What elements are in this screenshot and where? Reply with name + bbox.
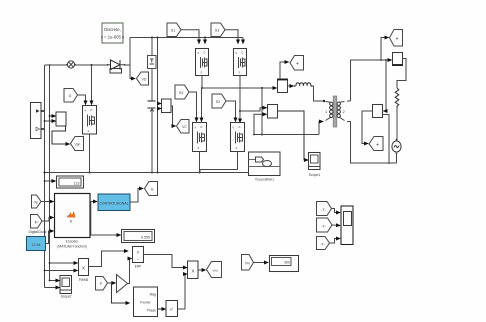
svg-text:X: X: [191, 269, 194, 274]
wire top DC bus: [130, 37, 243, 39]
wire VMC out to goto VC: [171, 106, 176, 126]
node A: [201, 87, 203, 89]
svg-text:Scope2: Scope2: [61, 295, 72, 299]
from tag Ip: [31, 215, 43, 229]
goto tag result: [207, 262, 222, 278]
wire bus to RC branch: [151, 38, 153, 56]
voltage measurement VM1: [44, 112, 66, 126]
wire CM2 out to inductor: [288, 85, 294, 87]
svg-text:D: D: [91, 108, 93, 112]
DC source subsystem block: [31, 103, 42, 139]
mosfet Mleft chopper: [83, 106, 97, 135]
wire busB to X1 in1: [50, 262, 78, 264]
svg-text:fx: fx: [70, 220, 73, 224]
wire fcn out junction: [89, 214, 92, 216]
transformer T1: [325, 96, 346, 127]
wire cap to bus: [151, 108, 153, 173]
node cap branch 2: [157, 37, 159, 39]
node display tap: [44, 180, 46, 182]
display Display2: [122, 230, 155, 243]
svg-text:Vp: Vp: [34, 201, 38, 205]
svg-text:S: S: [201, 71, 203, 75]
display Display1: [57, 176, 84, 188]
svg-text:X: X: [137, 250, 140, 255]
mosfet M4: [231, 123, 245, 152]
svg-text:G: G: [69, 94, 72, 98]
divide block ERP: [133, 247, 144, 269]
wire AC source to bottom: [396, 154, 398, 164]
svg-text:CONTROLSIGNAL: CONTROLSIGNAL: [99, 202, 128, 206]
node bus2 stub: [253, 134, 255, 136]
wire VM4 to goto V2: [362, 111, 373, 144]
product X1: [79, 259, 89, 283]
svg-text:0.595: 0.595: [141, 236, 150, 240]
wire VM4 to bottom: [383, 115, 390, 164]
wire bottom link dashed: [254, 134, 319, 136]
node drain Mleft: [91, 64, 93, 66]
goto tag VD: [137, 72, 149, 85]
svg-text:300: 300: [284, 261, 290, 265]
wire M2 source to M4 drain: [239, 76, 241, 123]
svg-text:Encoder: Encoder: [66, 240, 79, 244]
svg-text:123: 123: [74, 182, 80, 186]
svg-text:+: +: [376, 143, 379, 149]
powergui block: [101, 23, 124, 43]
wire CM2 signal to goto: [280, 62, 289, 79]
node A tap: [261, 87, 263, 89]
from tag T1m: [317, 202, 332, 216]
wire DC top feed: [45, 64, 68, 66]
wire node down to Goto VD: [130, 65, 135, 79]
subsystem Vca positive: [249, 152, 281, 182]
svg-text:S1: S1: [171, 29, 175, 33]
from tag S2: [212, 94, 226, 108]
wire busA to Scope2 in2: [45, 287, 60, 289]
wire M1 source to node A: [201, 76, 203, 89]
wire S1 to M1 gate: [181, 30, 199, 44]
ac source Vgrid: [392, 139, 401, 155]
wire T1m to scope3: [332, 209, 341, 213]
scope Scope1: [309, 153, 321, 178]
svg-text:VD: VD: [142, 78, 147, 82]
wire top feed to Mleft drain: [91, 65, 93, 105]
wire FN to Display3: [254, 262, 269, 264]
node B: [239, 110, 241, 112]
wire diode out node: [125, 64, 130, 66]
goto tag Vs: [390, 30, 403, 47]
from tag Vp: [32, 195, 42, 208]
wire M1 drain drop: [204, 38, 206, 44]
wire 1/u to X2 in2: [178, 274, 188, 309]
svg-text:VC: VC: [182, 125, 187, 129]
wire CONTROLSIGNAL to goto G: [130, 189, 143, 203]
scope Scope2: [60, 276, 72, 299]
svg-text:S2: S2: [216, 100, 220, 104]
svg-text:S: S: [198, 146, 200, 150]
wire vertical bus B: [49, 65, 51, 281]
resistor Rload: [395, 88, 399, 108]
svg-text:DigitalClock: DigitalClock: [29, 230, 47, 234]
wire primary bottom: [319, 122, 323, 135]
node A tap bottom: [261, 134, 263, 136]
wire G to Mleft gate: [78, 95, 86, 105]
goto tag Vpn: [71, 137, 84, 151]
wire bus2 to VM2 minus: [254, 114, 267, 134]
product X2: [188, 261, 199, 279]
svg-text:S: S: [88, 129, 90, 133]
from tag T3m: [317, 237, 330, 250]
goto tag Iinv: [290, 56, 304, 71]
from tag FN: [242, 255, 254, 271]
from tag P: [96, 277, 108, 291]
wire T3m to scope3: [330, 239, 341, 244]
node cap bus: [151, 172, 153, 174]
svg-text:Vca positive1: Vca positive1: [255, 178, 274, 182]
voltage measurement VM4: [373, 105, 383, 118]
wire X2 out to goto: [198, 269, 206, 271]
goto tag VC: [177, 120, 190, 134]
svg-text:X: X: [82, 266, 85, 271]
svg-text:(MATLAB Function): (MATLAB Function): [57, 245, 87, 249]
node bus left: [44, 172, 46, 174]
goto tag V2: [369, 137, 383, 151]
wire M3 source to bus: [199, 152, 201, 173]
wire vertical bus A: [44, 65, 46, 288]
wire secondary bottom loop: [347, 122, 397, 164]
svg-text:S3: S3: [215, 29, 219, 33]
wire Vp to fcn in1: [41, 201, 54, 203]
svg-text:S: S: [236, 146, 238, 150]
svg-text:+: +: [396, 37, 399, 43]
wire Ip to fcn in2: [42, 218, 54, 222]
wire B node to VM2 plus: [240, 108, 267, 111]
wire A tap down: [261, 88, 263, 135]
wire P to Fourier: [112, 283, 130, 303]
svg-text:Vhd: Vhd: [212, 269, 218, 273]
wire divide out to X2 in1: [144, 255, 188, 268]
from tag S4: [175, 85, 189, 99]
svg-text:Phase: Phase: [147, 309, 157, 313]
diode D1: [107, 60, 126, 73]
from tag T2m: [317, 218, 333, 232]
wire M4 source to bus: [200, 152, 238, 173]
wire M3 drain drop: [201, 88, 203, 122]
wire secondary top loop: [347, 60, 392, 101]
mosfet M2: [234, 49, 247, 76]
node M3 bus: [199, 172, 201, 174]
digital clock block: [27, 237, 46, 251]
display Display3: [270, 256, 299, 272]
wire tap down to VM4: [384, 60, 387, 111]
wire busB to Scope2 in1: [50, 280, 60, 282]
wire busA to Display1: [45, 180, 56, 182]
svg-text:Mag: Mag: [150, 293, 157, 297]
svg-text:+: +: [296, 62, 299, 68]
svg-text:D: D: [201, 125, 203, 129]
wire inductor to transformer primary top: [311, 86, 323, 101]
svg-text:-T-: -T-: [321, 208, 326, 212]
from tag S3: [211, 23, 225, 37]
node VM4 tap: [385, 59, 387, 61]
inductor L1: [294, 83, 312, 87]
current measurement CM2: [278, 79, 288, 93]
current measurement CM3: [393, 53, 403, 66]
block 1/u: [166, 301, 178, 317]
svg-text:FN: FN: [245, 262, 250, 266]
svg-text:s = 1e-005 s: s = 1e-005 s: [101, 35, 124, 40]
svg-text:-T-: -T-: [321, 225, 326, 229]
wire RC branch to cap: [151, 69, 153, 101]
scope Scope3: [341, 206, 353, 245]
svg-text:Fourier: Fourier: [140, 301, 151, 305]
svg-text:Ip: Ip: [35, 220, 38, 224]
wire resistor to AC source: [396, 108, 398, 141]
wire node up to top bus: [129, 38, 131, 66]
svg-text:PWM5: PWM5: [79, 278, 89, 282]
wire fourier phase to ub: [158, 308, 166, 310]
wire negative bus: [45, 172, 250, 174]
wire S3 to M2 gate: [225, 30, 238, 44]
wire CM3 out to resistor: [397, 59, 406, 89]
wire fcn out2 to Display2: [91, 215, 121, 235]
wire DC+ stub: [41, 110, 45, 112]
svg-text:Discrete,: Discrete,: [104, 27, 121, 32]
wire X1 out to divide: [89, 251, 129, 267]
node M1 drain: [204, 37, 206, 39]
node bottom junction: [388, 162, 390, 164]
MATLAB function block Encoder: [55, 194, 91, 249]
wire to CONTROLSIGNAL: [91, 202, 97, 216]
wire T2m to scope3: [332, 224, 340, 227]
node top-left B: [49, 64, 51, 66]
voltage measurement VMC: [158, 99, 172, 113]
svg-text:-T-: -T-: [320, 243, 325, 247]
node cap branch 1: [151, 37, 153, 39]
wire S2 to M4 gate: [226, 101, 236, 122]
svg-text:D: D: [204, 51, 206, 55]
goto tag G2: [145, 182, 158, 196]
svg-text:D: D: [239, 125, 241, 129]
svg-text:12:34: 12:34: [32, 243, 41, 247]
mosfet M3: [193, 123, 207, 152]
node goto tap: [380, 59, 382, 61]
fourier block: [134, 287, 158, 317]
wire VM2 out to scope1: [278, 111, 309, 160]
gain triangle: [117, 275, 128, 293]
wire CM1 to diode: [75, 64, 107, 66]
svg-text:ERP: ERP: [135, 265, 142, 269]
wire branch 2 vertical: [157, 38, 159, 173]
wire bridge output A: [202, 87, 277, 89]
svg-text:Scope1: Scope1: [309, 173, 321, 177]
current measurement CM1: [66, 61, 76, 68]
svg-text:u°: u°: [170, 308, 174, 312]
wire M2 drain drop: [242, 38, 244, 44]
node primary top: [323, 100, 325, 102]
wire clock to fcn in3: [46, 231, 54, 244]
node Mleft bus: [89, 172, 91, 174]
RC branch block: [148, 56, 157, 69]
svg-text:Vpn: Vpn: [75, 143, 81, 147]
wire DC- stub: [41, 128, 45, 130]
wire gain to divide in2: [128, 259, 132, 284]
goto tag CONTROLSIGNAL: [98, 194, 130, 211]
wire tap to goto Vs: [381, 38, 389, 61]
from tag S1: [167, 23, 181, 37]
wire busA to X1 in2: [45, 270, 78, 272]
mosfet M1: [196, 49, 209, 76]
svg-text:D: D: [242, 51, 244, 55]
wire S4 to M3 gate: [189, 92, 197, 122]
capacitor C1: [148, 101, 156, 112]
svg-text:S: S: [239, 71, 241, 75]
wire P junction: [108, 282, 116, 284]
svg-text:S4: S4: [179, 91, 183, 95]
svg-text:G: G: [151, 188, 154, 192]
voltage measurement VM2: [268, 105, 278, 119]
wire Mleft source to bus: [89, 134, 91, 173]
node branch2 bus: [157, 172, 159, 174]
wire VM1 out to goto Vpn: [52, 126, 70, 144]
from tag G: [64, 89, 78, 103]
